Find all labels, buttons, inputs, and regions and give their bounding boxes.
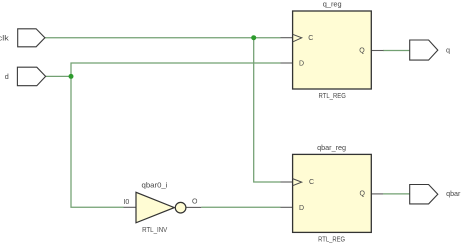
- svg-text:D: D: [299, 60, 304, 67]
- svg-text:RTL_INV: RTL_INV: [142, 225, 167, 234]
- svg-text:C: C: [308, 35, 313, 42]
- svg-text:q_reg: q_reg: [323, 0, 342, 8]
- svg-text:RTL_REG: RTL_REG: [318, 235, 345, 244]
- svg-text:I0: I0: [123, 199, 129, 206]
- svg-text:qbar: qbar: [446, 189, 461, 198]
- svg-text:RTL_REG: RTL_REG: [319, 91, 347, 100]
- svg-text:Q: Q: [360, 191, 366, 198]
- svg-text:Q: Q: [359, 48, 365, 55]
- svg-text:qbar0_i: qbar0_i: [142, 181, 168, 190]
- svg-text:qbar_reg: qbar_reg: [317, 143, 346, 152]
- svg-text:C: C: [309, 179, 314, 186]
- svg-text:d: d: [5, 72, 9, 81]
- svg-text:q: q: [446, 46, 450, 55]
- svg-text:D: D: [299, 205, 304, 212]
- svg-text:clk: clk: [0, 33, 9, 42]
- svg-text:O: O: [192, 198, 198, 205]
